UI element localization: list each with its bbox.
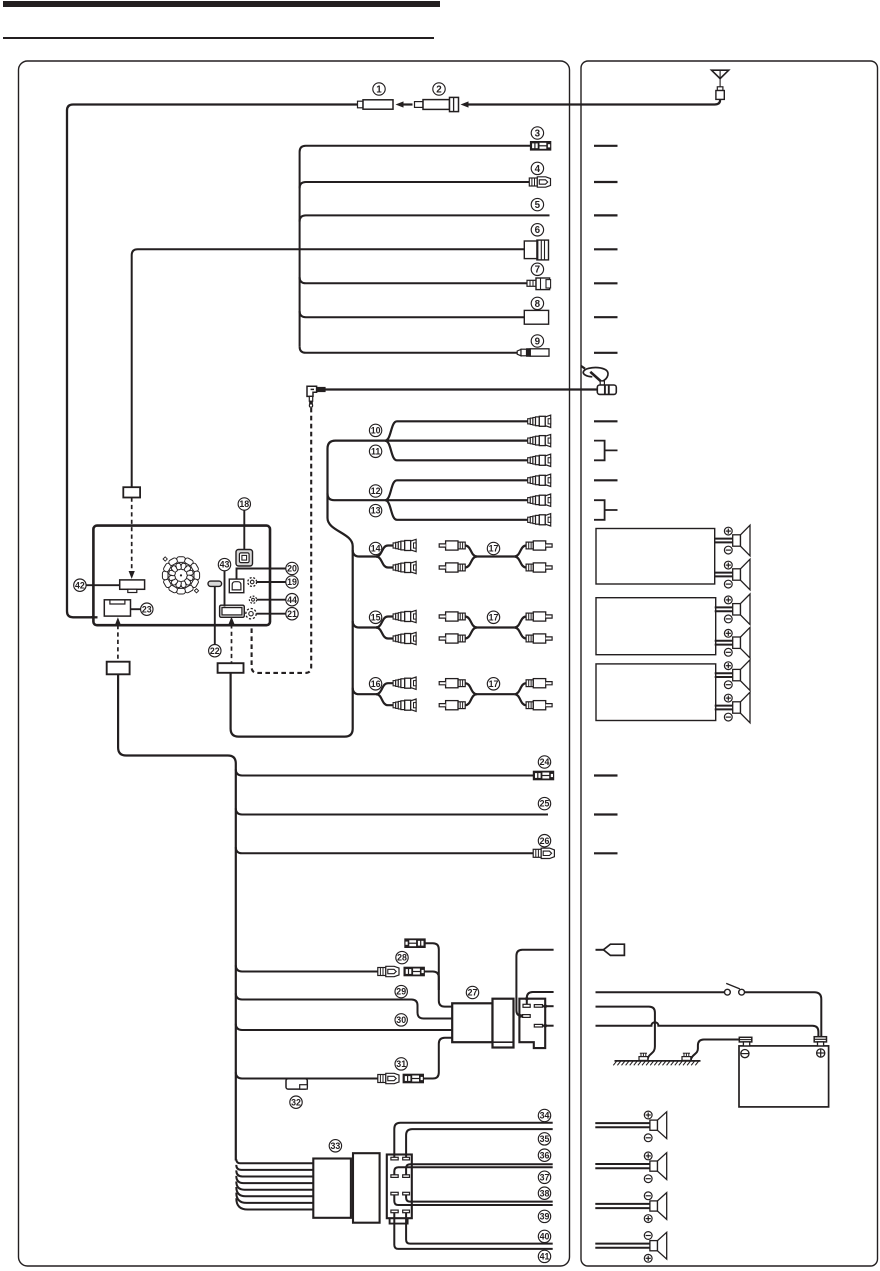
svg-text:23: 23 [142, 604, 152, 614]
speaker wire (41) [394, 1213, 552, 1249]
label circle (40) [538, 1230, 550, 1242]
wire from (31) male up into relay block [424, 1038, 453, 1079]
RCA plugs (15) [393, 610, 416, 622]
svg-text:30: 30 [396, 1015, 406, 1025]
branch to junction 2 (rows 12-13) [328, 494, 387, 501]
wire from upper connector into relay block [425, 943, 452, 1006]
vehicle speaker 2 [595, 1163, 650, 1165]
speaker at y=574.5 [715, 572, 733, 574]
speaker wire (37) [394, 1167, 552, 1175]
label circle (20) [286, 562, 298, 574]
svg-text:31: 31 [396, 1059, 406, 1069]
svg-text:18: 18 [239, 499, 249, 509]
lead line (21) [256, 613, 285, 615]
svg-text:42: 42 [75, 580, 85, 590]
RCA plugs (14) [393, 539, 416, 551]
battery negative terminal [739, 1037, 752, 1046]
svg-text:12: 12 [371, 486, 381, 496]
dashed drop into (42) [131, 498, 133, 571]
antenna socket (1) [358, 100, 394, 109]
wire row (28) [236, 965, 378, 971]
label circle (36) [538, 1149, 550, 1161]
speaker wire (35) [406, 1129, 553, 1157]
vehicle-side dash item at y=145.8 [594, 145, 618, 147]
svg-text:15: 15 [371, 612, 381, 622]
USB-B connector (20) [229, 579, 244, 593]
label circle (4) [531, 162, 543, 175]
lead line (42) [86, 584, 120, 586]
junction 1 split wires (rows 10/11) [385, 421, 528, 440]
label circle (43) [218, 558, 230, 570]
extension cable (17) plugs right [526, 541, 552, 550]
label circle (28) [396, 951, 408, 963]
battery wire with hop over ground lead [596, 1022, 819, 1037]
microphone lead wire [325, 388, 598, 390]
label circle (23) [141, 603, 153, 615]
svg-text:35: 35 [540, 1134, 550, 1144]
svg-text:25: 25 [540, 799, 550, 809]
RCA plug at y=500.2 [528, 494, 551, 506]
label circle (39) [538, 1210, 550, 1222]
ground strap screw 2 [682, 1053, 691, 1060]
label circle (35) [538, 1133, 550, 1145]
fuse holder (32) on wire (31) [286, 1079, 307, 1089]
svg-text:13: 13 [371, 506, 381, 516]
vehicle-side dash item at y=814.5 [594, 813, 618, 815]
label circle (5) [531, 198, 543, 211]
arrow into adapter (2) [461, 101, 469, 107]
label circle (44) [286, 594, 298, 606]
label circle (27) [466, 986, 478, 998]
svg-text:6: 6 [535, 225, 541, 236]
label circle (13) [369, 504, 381, 516]
extension cable (17) plugs right [526, 679, 552, 688]
cooling fan [162, 557, 199, 594]
svg-text:28: 28 [397, 953, 407, 963]
svg-text:44: 44 [287, 595, 297, 605]
svg-text:17: 17 [489, 612, 499, 622]
svg-text:10: 10 [371, 426, 381, 436]
wire row (8) [300, 311, 525, 317]
pin 1 [523, 1004, 530, 1007]
power antenna lead down to pin 3 [516, 950, 553, 1016]
dashed arrow into (23) [115, 617, 121, 625]
harness wire 1 into (33) [236, 1159, 313, 1163]
extension cable (17) plugs right [526, 612, 552, 621]
battery lead from pin 4 [543, 1025, 554, 1027]
jack (19) [248, 578, 257, 587]
pin 4 [534, 1024, 542, 1027]
label circle (10) [369, 424, 381, 436]
connector (28) male spade [404, 967, 425, 976]
wire from (1) to head unit antenna input [67, 105, 358, 618]
vehicle-side dash item at y=853.3 [594, 852, 618, 854]
harness feed wire to bundle (rows 3-9) [132, 249, 301, 487]
svg-text:5: 5 [535, 200, 541, 211]
speaker wire (38) [406, 1195, 553, 1202]
connector (7) plug [527, 278, 551, 290]
lead line (18) [243, 510, 245, 549]
svg-text:11: 11 [371, 446, 380, 456]
connector (8) box terminal [524, 310, 548, 324]
svg-text:38: 38 [540, 1188, 550, 1198]
speaker wire (39) [394, 1195, 552, 1205]
output pair (14) branch from trunk [353, 550, 377, 557]
junction dots on connector edge [543, 1004, 547, 1008]
svg-text:4: 4 [535, 164, 541, 175]
power antenna tag [603, 944, 624, 955]
RCA plug at y=440.6 [528, 434, 551, 446]
svg-text:41: 41 [540, 1252, 550, 1262]
speaker at y=540.5 [715, 538, 733, 540]
label circle (6) [531, 224, 543, 237]
antenna lead wire [468, 99, 720, 104]
arrow between (1) and (2) [403, 103, 413, 105]
remote lead from pin 2 [543, 1005, 554, 1007]
lead line (22) [214, 586, 216, 644]
antenna plug adapter (2) [415, 97, 459, 111]
jack (44) [249, 596, 256, 603]
RCA plugs (16) [393, 677, 416, 689]
wire row (7) [300, 277, 527, 283]
vehicle-side dash item at y=215.4 [594, 214, 618, 216]
label circle (22) [209, 645, 221, 657]
connector (4) female spade [529, 177, 550, 187]
harness wire 7 into (33) [236, 1193, 313, 1203]
chassis ground bar [613, 1061, 700, 1065]
connector (28) female spade [378, 966, 399, 976]
power antenna tag lead [596, 949, 605, 951]
amplifier box 3 [596, 664, 716, 721]
dashed arrow into USB port (43) [229, 617, 235, 625]
label circle (15) [369, 611, 381, 623]
vehicle speaker 1 [595, 1122, 650, 1124]
right panel border (vehicle side) [581, 61, 878, 1266]
svg-text:22: 22 [210, 646, 220, 656]
amplifier box 2 [596, 598, 716, 655]
label circle (19) [286, 576, 298, 588]
optical digital connector (18) [236, 550, 253, 567]
svg-text:1: 1 [376, 84, 382, 95]
label circle (12) [369, 485, 381, 497]
svg-text:33: 33 [331, 1141, 341, 1151]
wire switch to battery positive [745, 992, 822, 1036]
svg-text:36: 36 [540, 1150, 550, 1160]
connector (3) spade terminal [530, 141, 551, 150]
speaker at y=675.1 [715, 672, 733, 674]
microphone [581, 366, 616, 395]
lead line (20) [237, 569, 286, 580]
wire row (3) [300, 146, 531, 152]
RCA plug at y=480.3 [528, 474, 551, 486]
svg-text:20: 20 [287, 564, 297, 574]
output pair (16) branch from trunk [353, 688, 377, 695]
ignition switch [725, 983, 745, 995]
combiner bracket rows 12/13 [594, 500, 618, 520]
extension cable (17) plugs left [439, 679, 465, 688]
ground lead from power antenna line [596, 1007, 655, 1061]
label circle (8) [531, 297, 543, 310]
svg-text:3: 3 [535, 128, 541, 139]
svg-text:29: 29 [396, 987, 406, 997]
pin 3 [523, 1015, 531, 1018]
wire row (30) [236, 1024, 452, 1030]
svg-text:14: 14 [371, 544, 381, 554]
wire row (24) [236, 769, 533, 775]
ground strap screw 1 [639, 1053, 648, 1060]
harness wire 8 into (33) [236, 1198, 313, 1209]
label circle (1) [373, 83, 385, 96]
connector (42) [120, 580, 145, 593]
USB extension box [218, 663, 244, 673]
title bar (redacted heading) [3, 1, 440, 7]
connector (24) spade terminal [533, 771, 554, 780]
label circle (17) [487, 542, 499, 554]
svg-text:21: 21 [287, 609, 297, 619]
RCA bundle trunk (rows 10-16) [231, 441, 387, 737]
antenna plug [716, 87, 724, 100]
left panel border (unit side) [19, 61, 570, 1266]
label circle (30) [395, 1014, 407, 1026]
speaker at y=609.3 [715, 606, 733, 608]
label circle (24) [538, 756, 550, 768]
label circle (31) [395, 1058, 407, 1070]
label circle (29) [395, 985, 407, 997]
speaker wire (40) [406, 1213, 553, 1244]
svg-text:43: 43 [220, 560, 230, 570]
svg-text:19: 19 [287, 577, 297, 587]
lead line (44) [257, 599, 286, 601]
amplifier box 1 [596, 529, 715, 585]
mating connector of (27) [519, 999, 545, 1048]
label circle (34) [538, 1109, 550, 1121]
label circle (21) [286, 608, 298, 620]
label circle (26) [538, 835, 550, 847]
fan screws [163, 557, 199, 593]
RCA plug at y=421.3 [528, 415, 551, 427]
label circle (37) [538, 1171, 550, 1183]
vehicle connector bottom tab [390, 1218, 408, 1223]
pin 2 [534, 1005, 542, 1008]
connector (26) female spade [533, 848, 554, 858]
right-angle mini plug [307, 386, 325, 407]
svg-text:8: 8 [535, 299, 541, 310]
wire from (28) male into relay vertical [425, 972, 439, 991]
junction 2 split wires (rows 12/13) [385, 480, 528, 500]
battery negative lead to ground [691, 1040, 740, 1061]
wire row (5) [300, 215, 550, 221]
speaker wire (34) [394, 1123, 552, 1158]
label circle (25) [538, 797, 550, 809]
harness wire 5 into (33) [236, 1182, 313, 1190]
battery minus mark [741, 1050, 749, 1058]
card slot (22) [208, 581, 222, 586]
label circle (18) [238, 498, 250, 510]
svg-text:37: 37 [540, 1172, 550, 1182]
speaker at y=642.7 [715, 640, 733, 642]
extension cable (17) body [465, 683, 514, 694]
accessory lead down to pin 1 [527, 992, 554, 1004]
connector (31) female spade [378, 1073, 399, 1083]
svg-text:32: 32 [291, 1097, 301, 1107]
vehicle speaker 3 [595, 1203, 650, 1205]
label circle (17) [487, 678, 499, 690]
RCA plug at y=460.3 [528, 454, 551, 466]
head unit chassis [93, 526, 270, 626]
label circle (32) [290, 1096, 302, 1108]
label circle (3) [531, 127, 543, 140]
vehicle-side dash item at y=480.3 [594, 479, 618, 481]
label circle (14) [369, 542, 381, 554]
vehicle-side dash item at y=421.3 [594, 420, 618, 422]
dashed link mini plug to AUX jack (21) [252, 408, 312, 673]
vehicle-side dash item at y=775.5 [594, 774, 618, 776]
connector (23) [104, 600, 130, 616]
vehicle-side dash item at y=283.3 [594, 282, 618, 284]
jack (21) [246, 609, 256, 619]
wire row (4) [300, 182, 530, 188]
extension box below (23) [107, 662, 130, 675]
ISO connector (33) housing [353, 1153, 380, 1223]
RCA plug at y=519.8 [528, 514, 551, 526]
vehicle-side dash item at y=352.8 [594, 352, 618, 354]
label circle (38) [538, 1187, 550, 1199]
accessory wire to ignition switch [596, 991, 725, 993]
wire row (25) [236, 808, 548, 814]
harness wire 4 into (33) [236, 1176, 313, 1183]
connector (6) power plug [524, 240, 548, 260]
svg-text:7: 7 [535, 265, 541, 276]
label circle (42) [74, 579, 86, 591]
label circle (33) [329, 1140, 341, 1152]
lead line (23) [131, 608, 141, 610]
output pair (15) branch from trunk [353, 621, 377, 628]
combiner bracket rows 10/11 [594, 441, 618, 461]
USB-A port (43) [220, 605, 245, 617]
svg-text:39: 39 [540, 1212, 550, 1222]
battery plus mark [817, 1049, 825, 1057]
antenna wire tail into head unit [91, 616, 98, 618]
svg-text:24: 24 [540, 757, 550, 767]
svg-text:17: 17 [489, 679, 499, 689]
lead line (43) [224, 571, 226, 607]
label circle (17) [487, 611, 499, 623]
arrow into jack (21) [249, 619, 255, 627]
wire row (6) [301, 248, 524, 250]
main harness trunk from head unit [118, 674, 236, 1160]
svg-text:16: 16 [371, 679, 381, 689]
svg-text:40: 40 [540, 1232, 550, 1242]
label circle (9) [531, 335, 543, 348]
label circle (2) [433, 83, 445, 96]
battery body [739, 1046, 829, 1107]
extension cable (17) plugs left [439, 612, 465, 621]
speaker at y=707.5 [715, 705, 733, 707]
wire row (9) [300, 347, 518, 353]
bundle trunk (rows 3-9) [299, 152, 301, 347]
relay block (27) collar [493, 999, 514, 1048]
extension cable (17) plugs left [439, 541, 465, 550]
vehicle-side dash item at y=182.0 [594, 181, 618, 183]
connector (31) male spade [403, 1074, 424, 1083]
vehicle-side dash item at y=317.2 [594, 316, 618, 318]
battery positive terminal [814, 1037, 826, 1046]
title underline [3, 37, 434, 39]
svg-text:26: 26 [540, 836, 550, 846]
antenna symbol [712, 70, 729, 87]
vehicle speaker 4 [595, 1243, 650, 1245]
svg-text:27: 27 [468, 988, 478, 998]
svg-text:34: 34 [540, 1111, 550, 1121]
vehicle harness connector body [387, 1155, 412, 1219]
svg-text:2: 2 [436, 84, 442, 95]
connector (9) barrel plug [517, 349, 549, 357]
label circle (11) [369, 445, 381, 457]
harness wire 6 into (33) [236, 1187, 313, 1196]
extension cable (17) body [465, 546, 514, 557]
svg-text:9: 9 [535, 336, 541, 347]
harness wire 2 into (33) [236, 1165, 313, 1170]
wire row (26) [236, 847, 533, 853]
svg-text:17: 17 [489, 544, 499, 554]
label circle (41) [538, 1250, 550, 1262]
upper spare spade connector [405, 939, 426, 948]
ISO connector (33) body [313, 1159, 351, 1218]
harness wire 3 into (33) [236, 1170, 313, 1176]
wire row (29) [236, 993, 452, 1018]
vehicle-side dash item at y=249.3 [594, 248, 618, 250]
connector pins [391, 1157, 410, 1212]
wire row (31) [236, 1072, 378, 1078]
speaker wire (36) [406, 1164, 553, 1175]
label circle (7) [531, 263, 543, 276]
label circle (16) [369, 678, 381, 690]
lead line (19) [257, 581, 286, 583]
extension cable (17) body [465, 617, 514, 628]
relay block (27) body [452, 1003, 492, 1042]
feed box above (42) [123, 487, 140, 497]
